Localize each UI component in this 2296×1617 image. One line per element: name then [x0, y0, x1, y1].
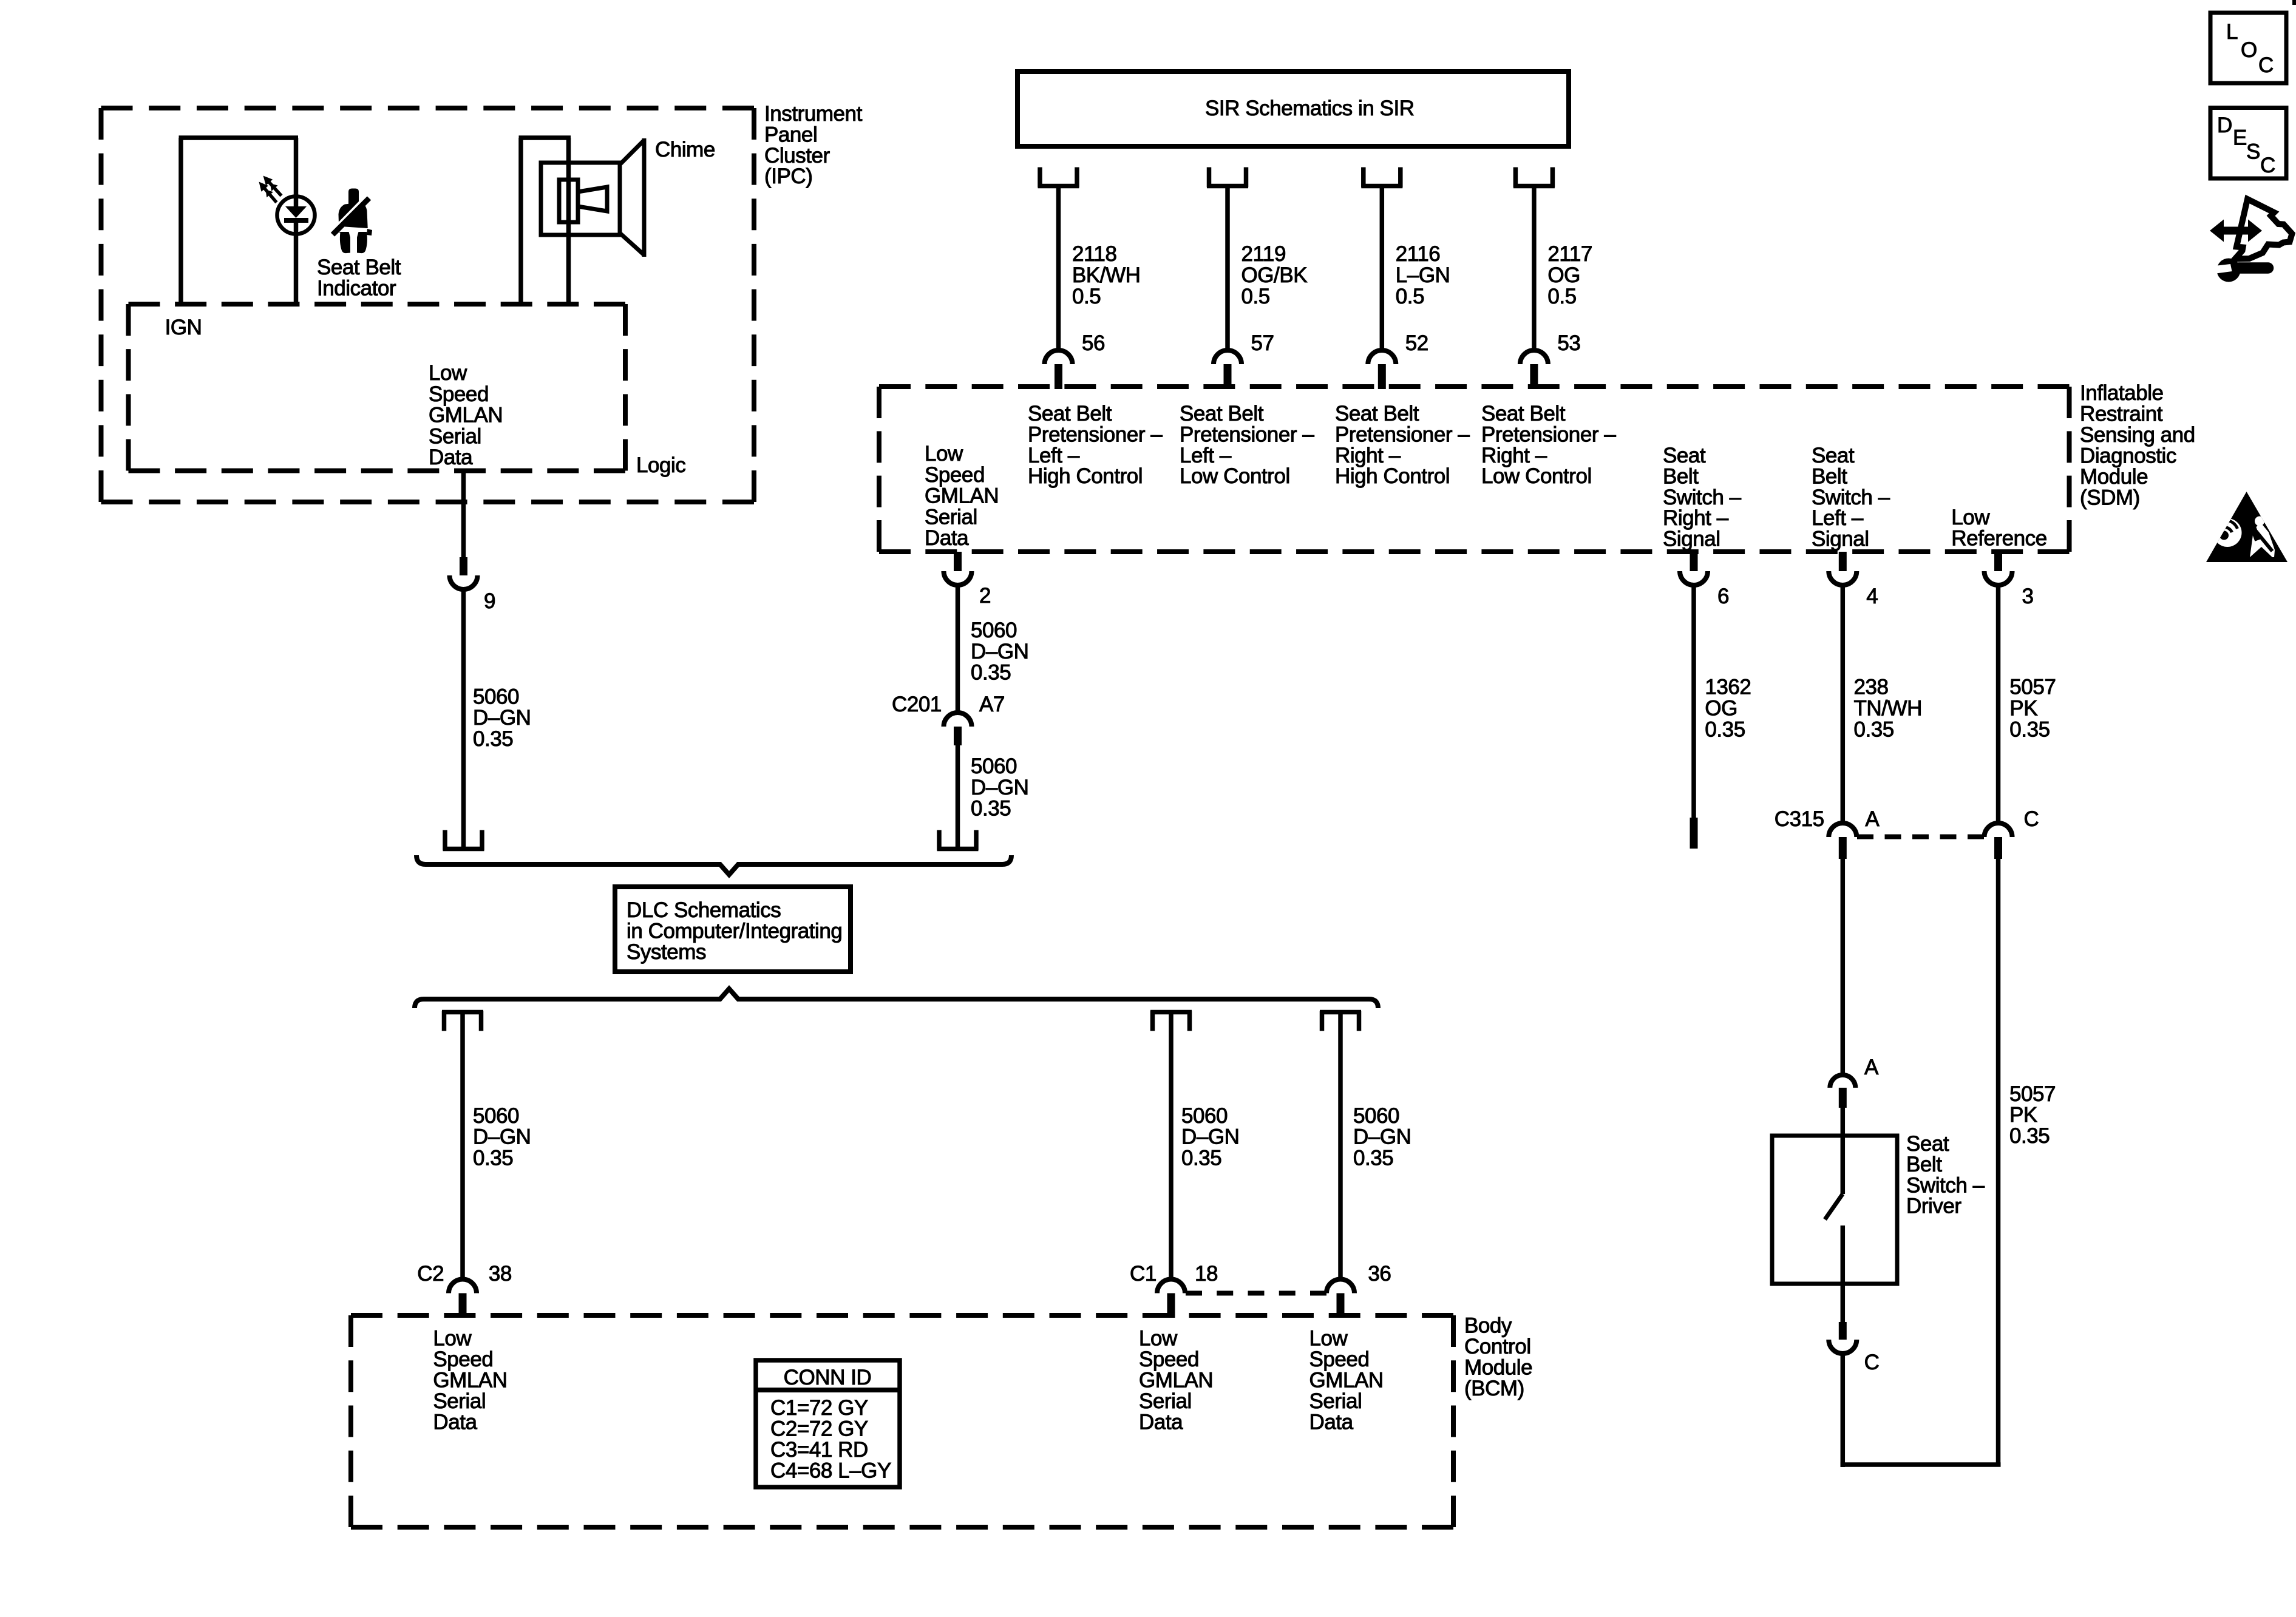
- svg-text:1362: 1362: [1705, 675, 1751, 699]
- svg-text:Seat Belt: Seat Belt: [317, 256, 401, 279]
- svg-text:Body: Body: [1464, 1314, 1512, 1338]
- svg-text:(IPC): (IPC): [764, 164, 812, 188]
- svg-text:3: 3: [2022, 585, 2034, 608]
- svg-text:Data: Data: [1139, 1411, 1183, 1434]
- svg-text:5060: 5060: [473, 1104, 519, 1128]
- svg-text:0.5: 0.5: [1396, 285, 1424, 308]
- svg-text:238: 238: [1854, 675, 1889, 699]
- svg-text:Belt: Belt: [1663, 464, 1699, 488]
- svg-text:Seat: Seat: [1812, 444, 1855, 467]
- svg-text:Reference: Reference: [1951, 526, 2046, 550]
- svg-text:A: A: [1865, 807, 1880, 831]
- svg-text:5060: 5060: [473, 685, 519, 708]
- svg-text:Pretensioner –: Pretensioner –: [1180, 422, 1314, 446]
- svg-text:Seat: Seat: [1906, 1132, 1949, 1156]
- svg-text:DLC Schematics: DLC Schematics: [627, 898, 781, 922]
- svg-text:0.5: 0.5: [1547, 285, 1576, 308]
- svg-text:53: 53: [1557, 331, 1580, 355]
- svg-text:Indicator: Indicator: [317, 276, 396, 300]
- svg-text:5060: 5060: [971, 754, 1017, 778]
- svg-text:0.35: 0.35: [1854, 717, 1894, 741]
- svg-text:PK: PK: [2009, 696, 2037, 720]
- svg-text:56: 56: [1082, 331, 1105, 355]
- svg-text:0.35: 0.35: [971, 797, 1011, 821]
- svg-text:Speed: Speed: [1309, 1347, 1370, 1371]
- svg-text:Restraint: Restraint: [2080, 402, 2163, 426]
- svg-text:Right –: Right –: [1481, 444, 1547, 467]
- svg-text:Belt: Belt: [1812, 464, 1847, 488]
- svg-text:38: 38: [489, 1262, 512, 1286]
- svg-text:Low Control: Low Control: [1481, 464, 1592, 488]
- svg-text:Left –: Left –: [1812, 506, 1864, 530]
- svg-text:Switch –: Switch –: [1906, 1173, 1985, 1197]
- svg-text:Module: Module: [2080, 465, 2148, 489]
- svg-text:Serial: Serial: [429, 424, 481, 448]
- svg-text:52: 52: [1405, 331, 1428, 355]
- svg-text:High Control: High Control: [1028, 464, 1143, 488]
- svg-text:Low: Low: [1309, 1327, 1348, 1351]
- svg-text:C: C: [2260, 154, 2275, 177]
- svg-text:0.35: 0.35: [473, 727, 513, 751]
- svg-text:0.35: 0.35: [1705, 717, 1745, 741]
- svg-text:C201: C201: [892, 693, 942, 716]
- svg-text:Data: Data: [433, 1411, 477, 1434]
- svg-text:Serial: Serial: [1139, 1389, 1192, 1413]
- svg-text:5060: 5060: [971, 619, 1017, 642]
- svg-text:6: 6: [1717, 585, 1729, 608]
- svg-text:5060: 5060: [1353, 1104, 1399, 1128]
- svg-text:CONN ID: CONN ID: [784, 1366, 872, 1389]
- svg-text:0.35: 0.35: [2009, 717, 2050, 741]
- svg-text:C: C: [2024, 807, 2039, 831]
- svg-text:Seat Belt: Seat Belt: [1180, 402, 1264, 425]
- svg-text:IGN: IGN: [165, 316, 202, 339]
- svg-text:Seat Belt: Seat Belt: [1481, 402, 1566, 425]
- svg-text:PK: PK: [2009, 1103, 2037, 1127]
- svg-text:D: D: [2217, 114, 2232, 137]
- svg-text:5060: 5060: [1181, 1104, 1228, 1128]
- svg-text:Low: Low: [1139, 1327, 1178, 1351]
- svg-text:S: S: [2246, 140, 2260, 164]
- svg-text:2116: 2116: [1396, 242, 1440, 266]
- svg-text:2118: 2118: [1072, 242, 1116, 266]
- svg-text:C315: C315: [1775, 807, 1824, 831]
- svg-text:GMLAN: GMLAN: [433, 1369, 507, 1392]
- svg-text:OG: OG: [1705, 696, 1737, 720]
- svg-text:Speed: Speed: [1139, 1347, 1199, 1371]
- svg-text:D–GN: D–GN: [971, 640, 1028, 663]
- svg-text:18: 18: [1195, 1262, 1218, 1286]
- svg-text:4: 4: [1866, 585, 1878, 608]
- svg-text:Speed: Speed: [925, 463, 985, 487]
- svg-text:0.5: 0.5: [1241, 285, 1270, 308]
- svg-text:TN/WH: TN/WH: [1854, 696, 1922, 720]
- svg-text:Switch –: Switch –: [1663, 486, 1742, 509]
- svg-text:Left –: Left –: [1180, 444, 1232, 467]
- svg-text:36: 36: [1368, 1262, 1391, 1286]
- svg-text:C1: C1: [1130, 1262, 1156, 1286]
- svg-text:D–GN: D–GN: [473, 706, 531, 730]
- svg-text:Control: Control: [1464, 1335, 1531, 1358]
- svg-text:Diagnostic: Diagnostic: [2080, 444, 2176, 468]
- svg-text:D–GN: D–GN: [1353, 1125, 1411, 1149]
- svg-text:Chime: Chime: [655, 138, 715, 161]
- svg-text:A: A: [1864, 1056, 1879, 1079]
- svg-text:GMLAN: GMLAN: [1309, 1369, 1384, 1392]
- svg-text:0.35: 0.35: [473, 1146, 513, 1170]
- svg-text:A7: A7: [979, 693, 1005, 716]
- svg-text:Low: Low: [925, 442, 963, 466]
- svg-text:5057: 5057: [2009, 675, 2056, 699]
- svg-text:C: C: [2258, 53, 2274, 77]
- svg-text:57: 57: [1251, 331, 1274, 355]
- svg-text:9: 9: [484, 589, 495, 613]
- svg-text:Pretensioner –: Pretensioner –: [1028, 422, 1163, 446]
- svg-text:D–GN: D–GN: [1181, 1125, 1239, 1149]
- svg-text:0.35: 0.35: [971, 661, 1011, 685]
- svg-text:O: O: [2241, 38, 2257, 62]
- svg-text:OG: OG: [1547, 263, 1580, 287]
- svg-text:Speed: Speed: [433, 1347, 493, 1371]
- svg-text:2117: 2117: [1547, 242, 1592, 266]
- svg-text:2: 2: [979, 584, 991, 608]
- svg-text:0.35: 0.35: [1181, 1146, 1221, 1170]
- svg-text:E: E: [2233, 126, 2247, 150]
- svg-text:Data: Data: [429, 446, 473, 469]
- svg-text:Panel: Panel: [764, 123, 817, 146]
- svg-text:Right –: Right –: [1335, 444, 1401, 467]
- svg-text:Seat Belt: Seat Belt: [1028, 402, 1112, 425]
- svg-text:in Computer/Integrating: in Computer/Integrating: [627, 920, 842, 943]
- svg-text:D–GN: D–GN: [971, 776, 1028, 799]
- svg-text:Pretensioner –: Pretensioner –: [1335, 422, 1470, 446]
- svg-text:Systems: Systems: [627, 940, 706, 964]
- svg-text:C1=72 GY: C1=72 GY: [770, 1396, 868, 1420]
- svg-text:Logic: Logic: [636, 453, 685, 477]
- svg-text:Data: Data: [925, 526, 969, 550]
- svg-text:Serial: Serial: [1309, 1389, 1362, 1413]
- svg-text:(BCM): (BCM): [1464, 1377, 1524, 1400]
- svg-text:(SDM): (SDM): [2080, 486, 2140, 510]
- svg-text:0.35: 0.35: [1353, 1146, 1393, 1170]
- svg-text:Signal: Signal: [1663, 527, 1720, 551]
- svg-text:Low: Low: [1951, 506, 1990, 529]
- svg-text:SIR Schematics in SIR: SIR Schematics in SIR: [1205, 97, 1415, 120]
- svg-text:Switch –: Switch –: [1812, 486, 1890, 509]
- svg-text:5057: 5057: [2009, 1082, 2056, 1106]
- svg-text:Low: Low: [433, 1327, 472, 1351]
- svg-text:GMLAN: GMLAN: [925, 484, 999, 508]
- svg-text:C2=72 GY: C2=72 GY: [770, 1417, 868, 1441]
- svg-text:L: L: [2226, 20, 2238, 44]
- svg-text:0.35: 0.35: [2009, 1124, 2050, 1148]
- svg-text:C: C: [1864, 1351, 1880, 1374]
- svg-text:Low Control: Low Control: [1180, 464, 1290, 488]
- svg-text:Left –: Left –: [1028, 444, 1080, 467]
- svg-text:Speed: Speed: [429, 382, 489, 406]
- svg-text:Seat: Seat: [1663, 444, 1706, 467]
- svg-text:Data: Data: [1309, 1411, 1354, 1434]
- svg-text:BK/WH: BK/WH: [1072, 263, 1140, 287]
- svg-text:Module: Module: [1464, 1356, 1532, 1380]
- svg-text:Driver: Driver: [1906, 1195, 1961, 1218]
- svg-text:L–GN: L–GN: [1396, 263, 1450, 287]
- svg-text:2119: 2119: [1241, 242, 1286, 266]
- svg-text:Signal: Signal: [1812, 527, 1869, 551]
- svg-text:C2: C2: [417, 1262, 444, 1286]
- svg-text:Belt: Belt: [1906, 1153, 1942, 1176]
- svg-text:High Control: High Control: [1335, 464, 1450, 488]
- svg-text:Low: Low: [429, 361, 467, 385]
- svg-text:Inflatable: Inflatable: [2080, 381, 2164, 405]
- svg-text:Pretensioner –: Pretensioner –: [1481, 422, 1616, 446]
- svg-text:GMLAN: GMLAN: [1139, 1369, 1213, 1392]
- svg-text:Serial: Serial: [433, 1389, 486, 1413]
- svg-text:Sensing and: Sensing and: [2080, 423, 2195, 447]
- svg-text:OG/BK: OG/BK: [1241, 263, 1308, 287]
- svg-text:C3=41 RD: C3=41 RD: [770, 1438, 868, 1462]
- svg-text:Instrument: Instrument: [764, 102, 863, 126]
- svg-text:GMLAN: GMLAN: [429, 404, 503, 427]
- svg-text:0.5: 0.5: [1072, 285, 1101, 308]
- svg-text:Right –: Right –: [1663, 506, 1729, 530]
- svg-text:D–GN: D–GN: [473, 1125, 531, 1149]
- svg-text:Seat Belt: Seat Belt: [1335, 402, 1419, 425]
- svg-text:C4=68 L–GY: C4=68 L–GY: [770, 1459, 891, 1483]
- svg-text:Serial: Serial: [925, 505, 977, 529]
- svg-text:Cluster: Cluster: [764, 144, 830, 168]
